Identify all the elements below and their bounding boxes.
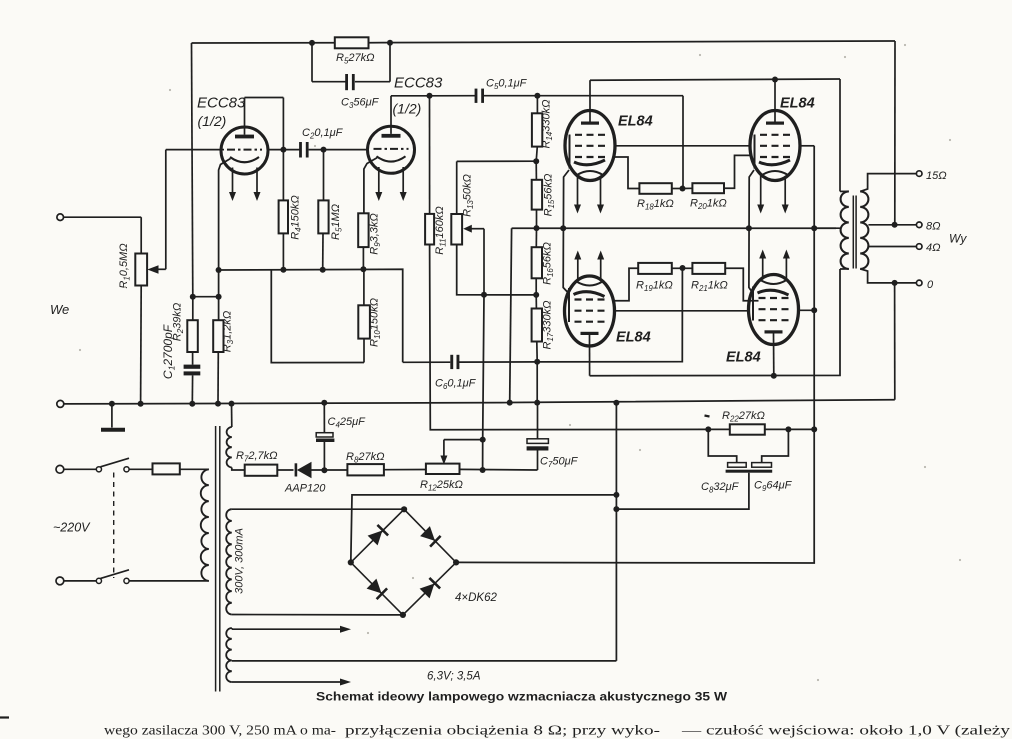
- svg-text:15Ω: 15Ω: [926, 170, 947, 182]
- svg-text:(1/2): (1/2): [198, 113, 227, 129]
- svg-text:(1/2): (1/2): [393, 101, 422, 117]
- svg-text:przyłączenia obciążenia 8 Ω; p: przyłączenia obciążenia 8 Ω; przy wyko-: [345, 723, 661, 738]
- svg-text:ECC83: ECC83: [197, 95, 246, 112]
- svg-text:R72,7kΩ: R72,7kΩ: [236, 450, 278, 464]
- svg-text:0: 0: [927, 279, 934, 291]
- svg-text:300V, 300mA: 300V, 300mA: [234, 528, 246, 594]
- svg-text:C356μF: C356μF: [341, 97, 380, 111]
- svg-text:8Ω: 8Ω: [926, 221, 941, 233]
- svg-text:6,3V; 3,5A: 6,3V; 3,5A: [427, 671, 481, 683]
- svg-text:C60,1μF: C60,1μF: [435, 378, 477, 392]
- svg-text:Wy: Wy: [949, 232, 967, 246]
- svg-text:— czułość wejściowa: około 1,0: — czułość wejściowa: około 1,0 V (zależy: [681, 723, 1011, 738]
- svg-text:R51MΩ: R51MΩ: [330, 204, 344, 240]
- svg-text:R2227kΩ: R2227kΩ: [722, 410, 765, 424]
- svg-text:EL84: EL84: [616, 330, 651, 346]
- svg-text:C20,1μF: C20,1μF: [302, 127, 344, 141]
- svg-text:4×DK62: 4×DK62: [455, 592, 497, 604]
- svg-text:Schemat ideowy lampowego wzmac: Schemat ideowy lampowego wzmacniacza aku…: [316, 692, 727, 704]
- svg-text:R827kΩ: R827kΩ: [346, 451, 384, 465]
- svg-text:R14330kΩ: R14330kΩ: [541, 100, 555, 149]
- svg-text:EL84: EL84: [726, 350, 761, 366]
- svg-text:R10,5MΩ: R10,5MΩ: [118, 243, 132, 288]
- svg-text:R93,3kΩ: R93,3kΩ: [369, 213, 383, 255]
- svg-text:C50,1μF: C50,1μF: [486, 78, 528, 92]
- svg-text:R211kΩ: R211kΩ: [691, 280, 728, 294]
- svg-text:R11160kΩ: R11160kΩ: [434, 206, 448, 254]
- svg-text:R1350kΩ: R1350kΩ: [462, 174, 476, 217]
- svg-text:R527kΩ: R527kΩ: [336, 52, 374, 66]
- svg-text:R17330kΩ: R17330kΩ: [542, 301, 556, 350]
- svg-text:R1556kΩ: R1556kΩ: [543, 174, 557, 217]
- svg-text:4Ω: 4Ω: [926, 242, 941, 254]
- svg-text:R4150kΩ: R4150kΩ: [290, 195, 304, 240]
- svg-text:R181kΩ: R181kΩ: [637, 198, 674, 212]
- svg-text:C832μF: C832μF: [701, 481, 740, 495]
- svg-text:C425μF: C425μF: [328, 416, 367, 430]
- svg-text:EL84: EL84: [618, 114, 653, 130]
- svg-text:R31,2kΩ: R31,2kΩ: [222, 311, 236, 353]
- svg-text:wego zasilacza 300 V, 250 mA o: wego zasilacza 300 V, 250 mA o ma-: [104, 723, 337, 738]
- svg-text:EL84: EL84: [780, 96, 815, 112]
- svg-text:C750μF: C750μF: [540, 456, 579, 470]
- svg-text:We: We: [50, 302, 69, 317]
- svg-text:C12700pF: C12700pF: [161, 324, 177, 379]
- svg-text:R201kΩ: R201kΩ: [690, 198, 727, 212]
- svg-text:R191kΩ: R191kΩ: [636, 280, 673, 294]
- svg-text:ECC83: ECC83: [394, 75, 443, 92]
- svg-text:C964μF: C964μF: [754, 480, 793, 494]
- svg-text:R1225kΩ: R1225kΩ: [420, 479, 463, 493]
- svg-text:AAP120: AAP120: [284, 483, 326, 495]
- svg-text:~220V: ~220V: [53, 521, 91, 535]
- svg-text:R10150kΩ: R10150kΩ: [369, 298, 383, 347]
- svg-text:R1656kΩ: R1656kΩ: [542, 242, 556, 285]
